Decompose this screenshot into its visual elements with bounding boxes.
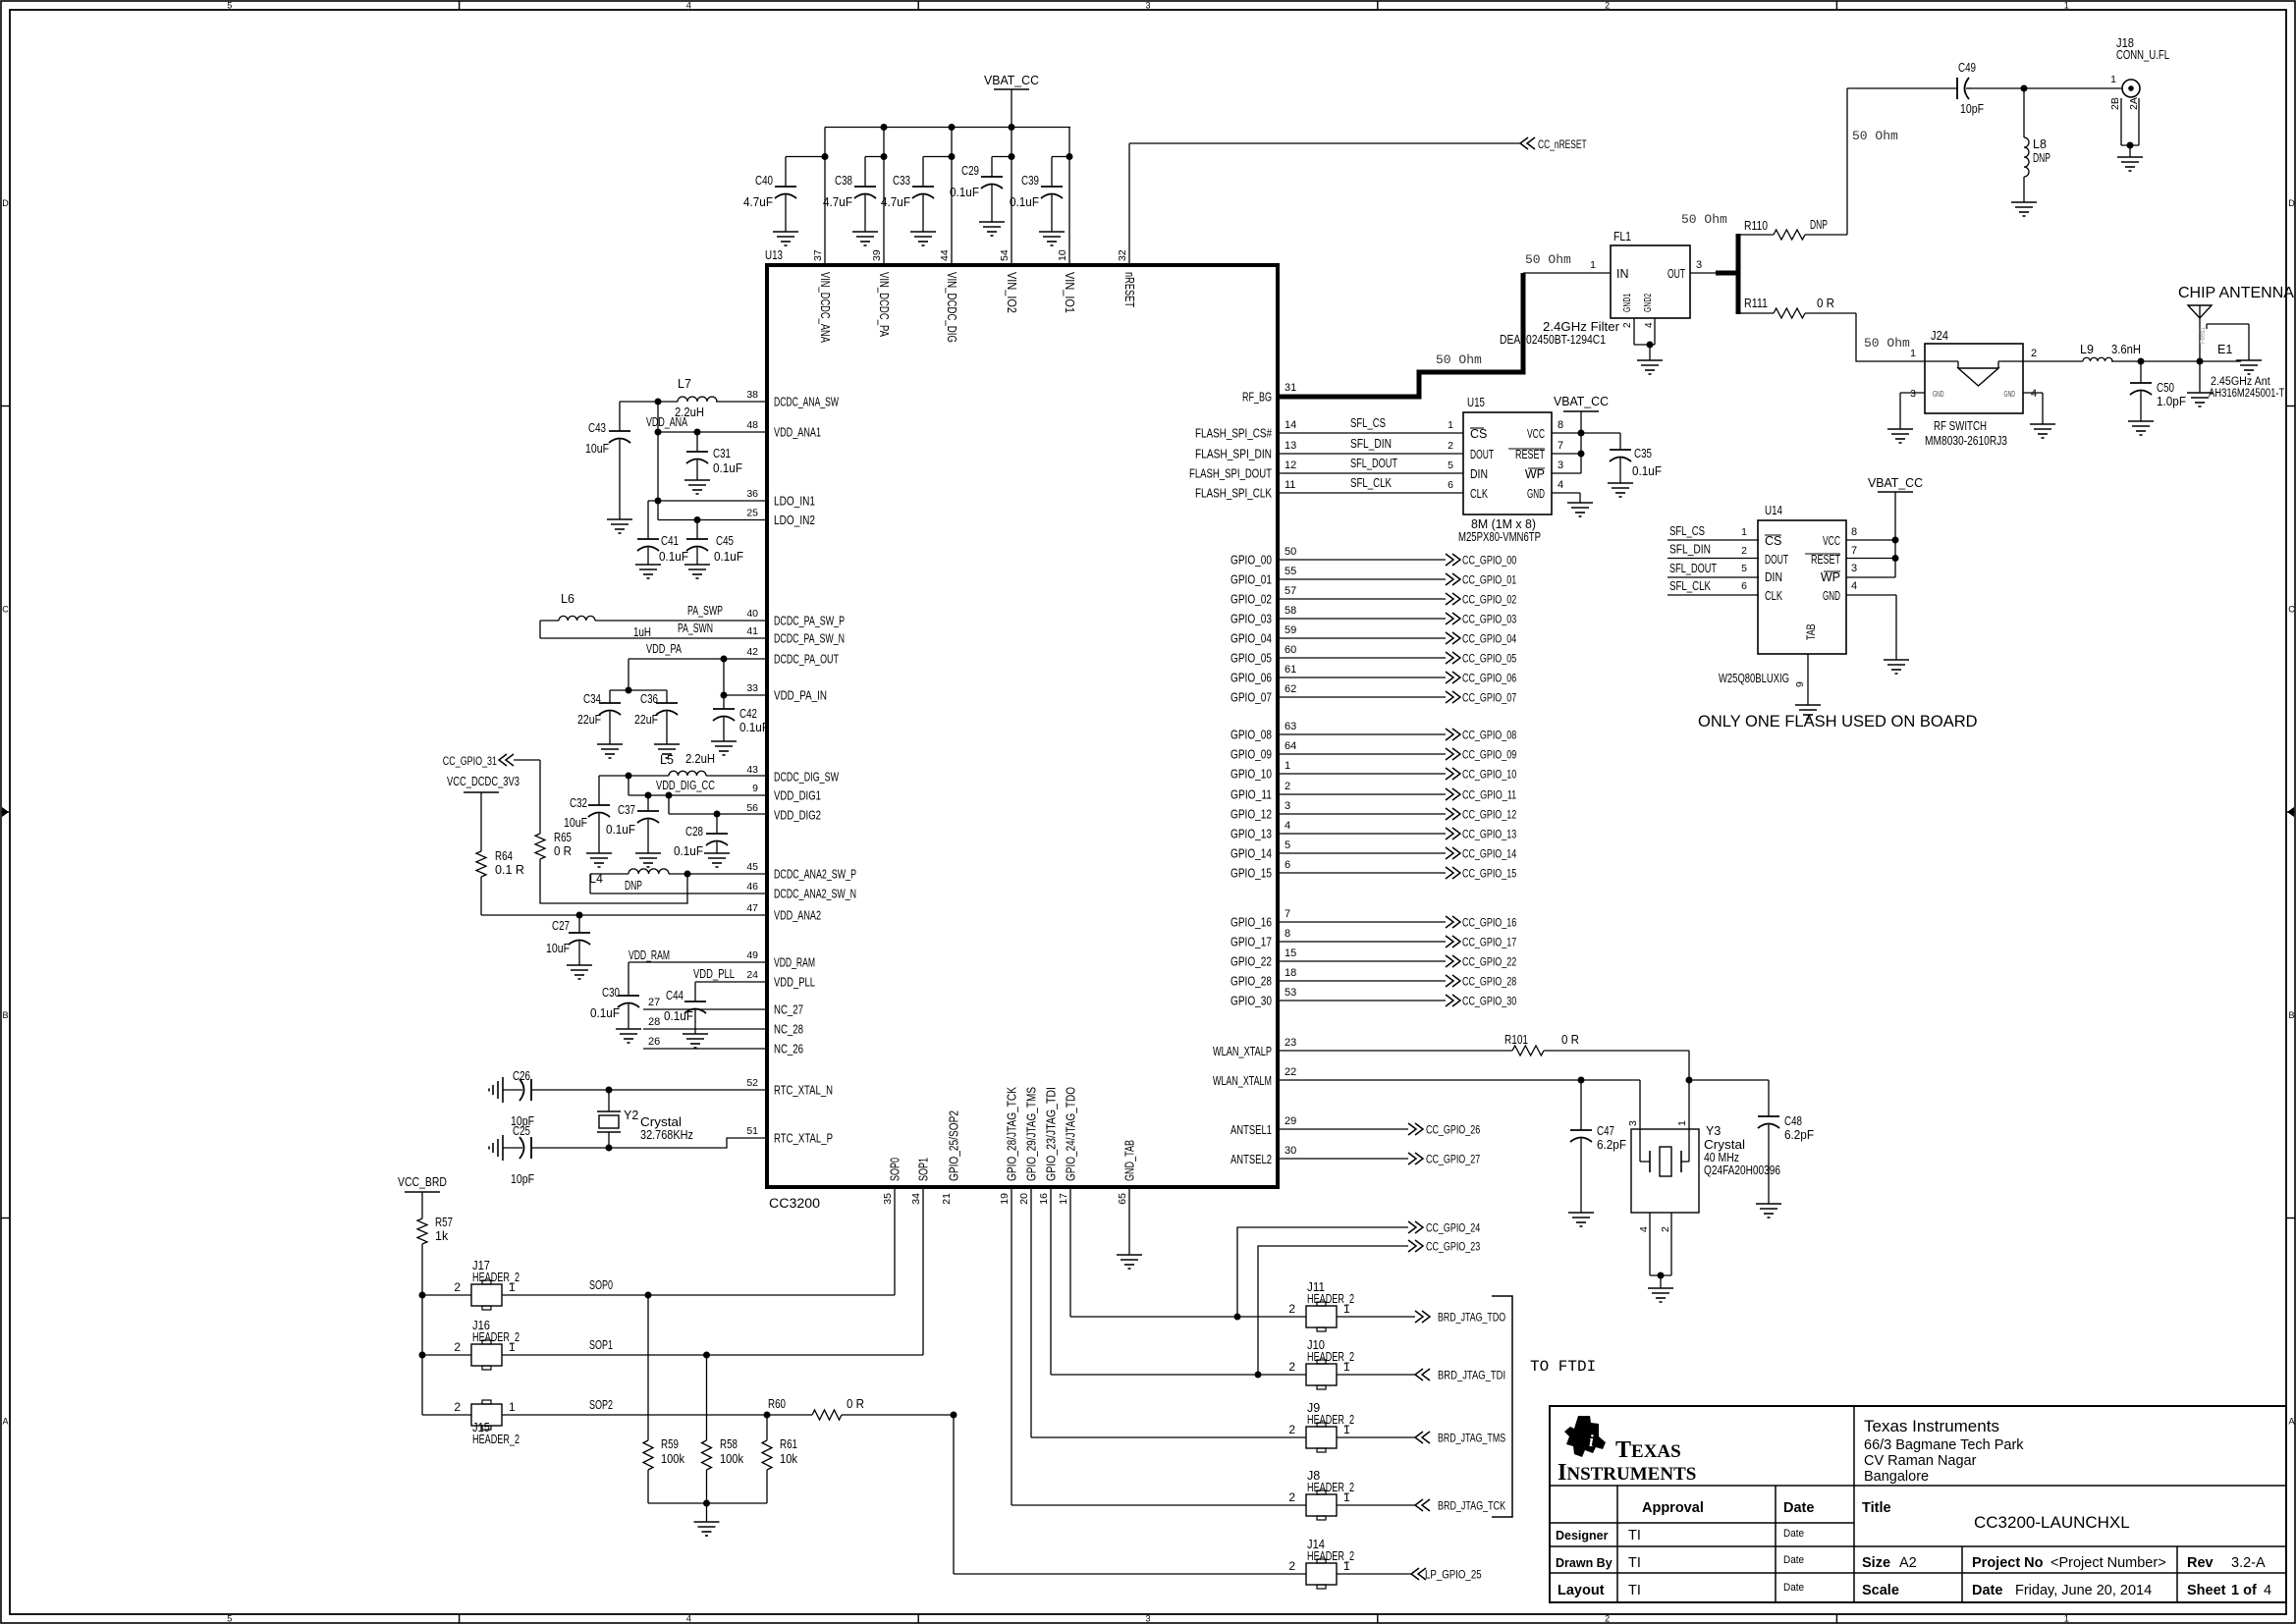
- svg-text:BRD_JTAG_TDI: BRD_JTAG_TDI: [1438, 1369, 1505, 1382]
- svg-text:50 Ohm: 50 Ohm: [1436, 352, 1482, 367]
- U13 left pin 48 VDD_ANA1: [746, 419, 821, 440]
- svg-text:36: 36: [746, 488, 758, 500]
- port LP_GPIO_25: [1411, 1568, 1482, 1582]
- svg-text:SFL_DIN: SFL_DIN: [1669, 543, 1711, 557]
- svg-text:NC_28: NC_28: [774, 1023, 803, 1037]
- U13 right pin 8 GPIO_17: [1230, 928, 1290, 949]
- svg-text:1: 1: [509, 1280, 516, 1294]
- U13 right pin 7 GPIO_16: [1230, 908, 1290, 930]
- svg-text:PA_SWN: PA_SWN: [678, 622, 713, 635]
- svg-text:C27: C27: [552, 919, 570, 933]
- svg-text:10uF: 10uF: [546, 942, 570, 955]
- svg-text:64: 64: [1285, 740, 1296, 752]
- svg-text:8: 8: [1558, 419, 1563, 431]
- ground under U14 GND: [1884, 660, 1909, 674]
- svg-text:DCDC_PA_SW_N: DCDC_PA_SW_N: [774, 632, 845, 646]
- svg-text:5: 5: [1448, 460, 1453, 471]
- svg-text:C26: C26: [513, 1069, 530, 1083]
- U13 left pin 36 LDO_IN1: [746, 488, 815, 509]
- U13 right pin 4 GPIO_13: [1230, 820, 1290, 841]
- svg-text:6.2pF: 6.2pF: [1784, 1128, 1814, 1142]
- svg-text:L8: L8: [2033, 137, 2047, 151]
- port CC_GPIO_26: [1408, 1123, 1480, 1137]
- svg-text:VDD_PLL: VDD_PLL: [693, 967, 735, 981]
- svg-text:VDD_PA_IN: VDD_PA_IN: [774, 689, 827, 703]
- svg-text:DCDC_ANA2_SW_P: DCDC_ANA2_SW_P: [774, 868, 856, 882]
- wire NC stub pin 26: [643, 1036, 767, 1049]
- svg-text:L7: L7: [678, 377, 691, 391]
- svg-text:C28: C28: [685, 825, 703, 839]
- svg-text:C34: C34: [583, 692, 601, 706]
- svg-text:VDD_DIG2: VDD_DIG2: [774, 809, 821, 823]
- svg-text:VBAT_CC: VBAT_CC: [1868, 476, 1923, 490]
- net label VDD_PA: [646, 642, 682, 656]
- inductor L6 1uH: [559, 592, 651, 639]
- wire VDD_PLL row: [695, 981, 767, 983]
- svg-text:1: 1: [2064, 1, 2069, 11]
- wire SFL_DOUT to U15: [1278, 457, 1463, 473]
- svg-text:R59: R59: [661, 1437, 679, 1451]
- ground under C50: [2128, 421, 2154, 435]
- ground under U15 GND: [1567, 503, 1593, 516]
- svg-text:PA_SWP: PA_SWP: [687, 604, 723, 618]
- svg-text:SFL_DOUT: SFL_DOUT: [1350, 457, 1397, 470]
- U13 right pin 12 FLASH_SPI_DOUT: [1189, 460, 1296, 481]
- svg-text:Q24FA20H00396: Q24FA20H00396: [1704, 1164, 1780, 1177]
- svg-text:VDD_PLL: VDD_PLL: [774, 976, 815, 990]
- svg-text:L5: L5: [660, 753, 674, 767]
- svg-text:22uF: 22uF: [634, 713, 658, 727]
- wire ANTSEL2: [1278, 1158, 1408, 1160]
- filter FL1 2.4GHz DEA202450BT-1294C1: [1500, 230, 1702, 347]
- svg-text:VDD_ANA: VDD_ANA: [646, 415, 687, 429]
- svg-text:D: D: [2, 198, 9, 208]
- svg-text:L4: L4: [589, 872, 603, 886]
- svg-text:10pF: 10pF: [511, 1172, 534, 1186]
- svg-text:Date: Date: [1783, 1500, 1814, 1516]
- U13 left pin 33 VDD_PA_IN: [746, 682, 827, 703]
- U13 right pin 53 GPIO_30: [1230, 987, 1296, 1008]
- RF switch J24 MM8030-2610RJ3: [1910, 329, 2037, 448]
- svg-text:GPIO_07: GPIO_07: [1230, 691, 1272, 705]
- capacitor C26 10pF: [503, 1069, 534, 1128]
- svg-text:66/3 Bagmane Tech Park: 66/3 Bagmane Tech Park: [1864, 1437, 2024, 1453]
- svg-text:GND: GND: [1823, 589, 1840, 603]
- capacitor C37 0.1uF: [606, 795, 659, 853]
- wire GPIO_02: [1278, 598, 1446, 600]
- svg-text:2: 2: [1741, 545, 1747, 557]
- wire nRESET vertical: [1128, 143, 1130, 265]
- svg-text:58: 58: [1285, 605, 1296, 617]
- wire U15 GND: [1552, 493, 1580, 503]
- svg-text:CC_GPIO_11: CC_GPIO_11: [1462, 790, 1516, 802]
- svg-text:4.7uF: 4.7uF: [743, 195, 773, 209]
- U13 right pin 60 GPIO_05: [1230, 644, 1296, 666]
- svg-text:1: 1: [1741, 526, 1747, 538]
- svg-text:6.2pF: 6.2pF: [1597, 1138, 1626, 1152]
- resistor R60 0 R: [768, 1397, 957, 1420]
- svg-text:Project No: Project No: [1972, 1555, 2044, 1571]
- svg-text:C33: C33: [893, 174, 910, 188]
- svg-text:56: 56: [746, 802, 758, 814]
- svg-text:3: 3: [1696, 259, 1702, 271]
- resistor R65 0 R: [535, 760, 687, 903]
- wire XTALP down to crystal: [1686, 1051, 1770, 1129]
- wire J14 left from U13 pin column x=971: [954, 1415, 1306, 1574]
- svg-text:0 R: 0 R: [1561, 1033, 1579, 1047]
- svg-text:49: 49: [746, 949, 758, 961]
- svg-text:LDO_IN1: LDO_IN1: [774, 495, 815, 509]
- header J10: [1288, 1338, 1354, 1389]
- svg-text:WLAN_XTALM: WLAN_XTALM: [1213, 1074, 1272, 1088]
- svg-text:1uH: 1uH: [633, 625, 651, 639]
- svg-text:15: 15: [1285, 947, 1296, 959]
- svg-text:CC3200: CC3200: [769, 1196, 820, 1211]
- ground under C32: [586, 853, 612, 867]
- svg-text:DNP: DNP: [625, 879, 642, 893]
- svg-text:10: 10: [1057, 249, 1068, 261]
- svg-text:DEA202450BT-1294C1: DEA202450BT-1294C1: [1500, 333, 1606, 347]
- svg-text:VDD_DIG_CC: VDD_DIG_CC: [656, 779, 715, 792]
- power symbol VBAT_CC (top): [984, 74, 1039, 128]
- wire GPIO_09: [1278, 753, 1446, 755]
- wire GPIO_07: [1278, 696, 1446, 698]
- svg-text:VCC_BRD: VCC_BRD: [398, 1175, 447, 1189]
- svg-text:1: 1: [509, 1340, 516, 1354]
- svg-text:Date: Date: [1783, 1582, 1804, 1594]
- svg-text:GPIO_29/JTAG_TMS: GPIO_29/JTAG_TMS: [1025, 1087, 1039, 1181]
- header J11: [1288, 1280, 1354, 1331]
- U13 right pin 63 GPIO_08: [1230, 721, 1296, 742]
- wire CC_GPIO_23 branch: [1258, 1246, 1408, 1375]
- U13 left pin 25 LDO_IN2: [746, 508, 815, 528]
- svg-text:GPIO_10: GPIO_10: [1230, 768, 1272, 782]
- wire J10 pin1 to port: [1337, 1374, 1415, 1376]
- svg-text:VDD_ANA1: VDD_ANA1: [774, 426, 821, 440]
- svg-text:R58: R58: [720, 1437, 738, 1451]
- U13 bottom pin 35 SOP0: [882, 1158, 902, 1205]
- svg-text:57: 57: [1285, 585, 1296, 597]
- header J17: [454, 1259, 519, 1310]
- svg-text:nRESET: nRESET: [1122, 272, 1136, 307]
- svg-text:55: 55: [1285, 566, 1296, 577]
- svg-text:2.45GHz Ant: 2.45GHz Ant: [2211, 376, 2270, 388]
- capacitor C38 4.7uF: [823, 153, 888, 232]
- wire LDO_IN1 row: [648, 500, 767, 502]
- svg-text:VIN_DCDC_DIG: VIN_DCDC_DIG: [945, 272, 958, 343]
- svg-text:C45: C45: [716, 534, 734, 548]
- wire DCDC_PA_OUT row: [629, 656, 767, 663]
- svg-text:C42: C42: [739, 707, 757, 721]
- svg-text:C40: C40: [755, 174, 773, 188]
- net label VDD_PLL: [693, 967, 735, 981]
- svg-text:CC_GPIO_08: CC_GPIO_08: [1462, 731, 1516, 742]
- wire WLAN_XTALP row: [1278, 1050, 1512, 1052]
- svg-text:0.1uF: 0.1uF: [713, 461, 742, 475]
- svg-text:39: 39: [871, 249, 883, 261]
- svg-text:i: i: [1589, 1432, 1594, 1450]
- svg-text:SFL_CS: SFL_CS: [1350, 416, 1386, 430]
- svg-text:2: 2: [1448, 440, 1453, 452]
- svg-text:5: 5: [227, 1, 232, 11]
- power symbol VCC_DCDC_3V3: [447, 775, 519, 851]
- svg-text:CONN_U.FL: CONN_U.FL: [2116, 48, 2169, 62]
- port CC_GPIO_31: [443, 754, 540, 768]
- svg-text:CC_GPIO_30: CC_GPIO_30: [1462, 997, 1516, 1008]
- svg-text:GPIO_30: GPIO_30: [1230, 995, 1272, 1008]
- svg-text:LDO_IN2: LDO_IN2: [774, 514, 815, 527]
- port CC_GPIO_22: [1446, 955, 1516, 969]
- wire CC_GPIO_24 branch: [1237, 1227, 1408, 1317]
- bracket TO FTDI: [1492, 1296, 1596, 1517]
- svg-text:C29: C29: [961, 164, 979, 178]
- ground GND_TAB: [1117, 1187, 1142, 1269]
- U13 right pin 14 FLASH_SPI_CS#: [1195, 419, 1296, 441]
- wire SOP2: [502, 1398, 812, 1419]
- wire PA_SWP row: [595, 604, 767, 621]
- svg-text:37: 37: [812, 249, 824, 261]
- svg-text:M25PX80-VMN6TP: M25PX80-VMN6TP: [1458, 530, 1541, 544]
- ground under C31: [684, 480, 710, 494]
- port CC_GPIO_09: [1446, 748, 1516, 762]
- svg-text:C38: C38: [835, 174, 852, 188]
- port BRD_JTAG_TDI: [1415, 1369, 1505, 1382]
- wire VDD_DIG2 row: [669, 795, 767, 818]
- power symbol VBAT_CC (U14): [1868, 476, 1923, 577]
- svg-text:DNP: DNP: [2033, 151, 2050, 165]
- svg-text:8: 8: [1851, 526, 1857, 538]
- U13 right pin 55 GPIO_01: [1230, 566, 1296, 587]
- svg-text:0 R: 0 R: [1817, 297, 1834, 310]
- svg-text:Bangalore: Bangalore: [1864, 1469, 1929, 1485]
- svg-text:1: 1: [1590, 259, 1596, 271]
- ground under R58: [694, 1522, 720, 1536]
- svg-text:Y3: Y3: [1706, 1124, 1721, 1138]
- svg-text:2: 2: [454, 1400, 461, 1414]
- svg-text:35: 35: [882, 1193, 894, 1205]
- inductor L8 DNP: [2024, 88, 2050, 202]
- U13 top pin 54 VIN_IO2: [999, 249, 1018, 313]
- svg-text:CLK: CLK: [1765, 589, 1782, 603]
- U13 right pin 61 GPIO_06: [1230, 664, 1296, 685]
- svg-text:DCDC_ANA_SW: DCDC_ANA_SW: [774, 396, 839, 409]
- svg-text:2.2uH: 2.2uH: [685, 752, 715, 766]
- capacitor C42 0.1uF: [713, 659, 769, 741]
- svg-text:1: 1: [509, 1400, 516, 1414]
- svg-text:Approval: Approval: [1642, 1500, 1704, 1516]
- svg-text:DCDC_ANA2_SW_N: DCDC_ANA2_SW_N: [774, 888, 856, 901]
- svg-text:CC_GPIO_00: CC_GPIO_00: [1462, 556, 1516, 568]
- svg-text:28: 28: [648, 1016, 660, 1028]
- svg-text:60: 60: [1285, 644, 1296, 656]
- svg-text:1: 1: [1343, 1490, 1350, 1504]
- svg-text:FLASH_SPI_CLK: FLASH_SPI_CLK: [1195, 487, 1273, 501]
- svg-text:TEXAS: TEXAS: [1615, 1437, 1681, 1463]
- ground under C48: [1756, 1204, 1781, 1218]
- svg-text:GND1: GND1: [1622, 294, 1633, 312]
- svg-text:TI: TI: [1628, 1555, 1641, 1571]
- U13 right pin 59 GPIO_04: [1230, 624, 1296, 646]
- wire FL1 out to stub: [1690, 272, 1738, 274]
- svg-text:SFL_CLK: SFL_CLK: [1350, 476, 1393, 490]
- svg-text:Size: Size: [1862, 1555, 1890, 1571]
- ground under C39: [1039, 232, 1065, 245]
- header J16: [454, 1319, 519, 1370]
- svg-text:46: 46: [746, 881, 758, 893]
- note ONLY ONE FLASH USED ON BOARD: [1698, 713, 1978, 731]
- svg-text:SOP1: SOP1: [917, 1158, 931, 1181]
- ground under C38: [852, 232, 878, 245]
- header J14: [1288, 1538, 1354, 1589]
- svg-text:3: 3: [1851, 563, 1857, 574]
- svg-text:B: B: [2, 1010, 8, 1020]
- svg-text:0 R: 0 R: [847, 1397, 864, 1411]
- svg-text:VDD_PA: VDD_PA: [646, 642, 682, 656]
- svg-text:TI: TI: [1628, 1583, 1641, 1598]
- svg-text:22: 22: [1285, 1066, 1296, 1078]
- U13 top pin 44 VIN_DCDC_DIG: [939, 249, 958, 343]
- svg-text:VBAT_CC: VBAT_CC: [1554, 395, 1609, 408]
- wire GPIO_15: [1278, 872, 1446, 874]
- svg-text:22uF: 22uF: [577, 713, 601, 727]
- wire DCDC_ANA2_SW_P row: [590, 871, 767, 878]
- svg-text:0.1uF: 0.1uF: [606, 823, 635, 837]
- svg-text:27: 27: [648, 997, 660, 1008]
- ground under C45: [684, 565, 710, 578]
- port CC_GPIO_05: [1446, 652, 1516, 666]
- wire GPIO_17: [1278, 941, 1446, 943]
- header J8: [1288, 1469, 1354, 1520]
- svg-text:GPIO_22: GPIO_22: [1230, 955, 1272, 969]
- wire VDD_ANA vertical rail: [655, 402, 662, 520]
- wire SFL_CLK to U14: [1667, 579, 1759, 595]
- ground under L8: [2011, 202, 2037, 216]
- port BRD_JTAG_TCK: [1415, 1499, 1505, 1513]
- resistor R111 0 R: [1740, 297, 1856, 318]
- port CC_GPIO_30: [1446, 995, 1516, 1008]
- svg-text:IN: IN: [1616, 267, 1629, 281]
- svg-text:GPIO_15: GPIO_15: [1230, 867, 1272, 881]
- crystal Y2 32.768KHz: [597, 1090, 693, 1148]
- svg-text:ONLY ONE FLASH USED ON BOARD: ONLY ONE FLASH USED ON BOARD: [1698, 713, 1978, 731]
- svg-text:3: 3: [1145, 1, 1150, 11]
- svg-text:4: 4: [1638, 1226, 1650, 1232]
- svg-text:CC_GPIO_26: CC_GPIO_26: [1426, 1125, 1480, 1137]
- wire VIN pin vertical x=969: [951, 128, 953, 266]
- U13 left pin 27 NC_27: [774, 1003, 803, 1017]
- svg-text:3: 3: [1627, 1120, 1639, 1126]
- svg-text:5: 5: [1741, 563, 1747, 574]
- svg-text:Y2: Y2: [624, 1109, 638, 1122]
- svg-text:DCDC_PA_SW_P: DCDC_PA_SW_P: [774, 615, 845, 628]
- svg-text:2: 2: [454, 1280, 461, 1294]
- svg-text:GND: GND: [1933, 390, 1944, 399]
- wire U14 TAB pin 9: [1794, 654, 1808, 705]
- svg-text:GPIO_11: GPIO_11: [1230, 788, 1272, 802]
- U13 right pin 15 GPIO_22: [1230, 947, 1296, 969]
- capacitor C44 0.1uF: [664, 982, 706, 1034]
- svg-text:41: 41: [746, 625, 758, 637]
- svg-text:Crystal: Crystal: [1704, 1138, 1745, 1152]
- port CC_GPIO_27: [1408, 1153, 1480, 1166]
- wire VDD_ANA2 row: [481, 912, 767, 919]
- svg-text:CC_GPIO_02: CC_GPIO_02: [1462, 595, 1516, 607]
- svg-text:CC_GPIO_27: CC_GPIO_27: [1426, 1155, 1480, 1166]
- svg-text:Scale: Scale: [1862, 1583, 1899, 1598]
- U13 bottom pin 17 GPIO_24/JTAG_TDO: [1058, 1087, 1078, 1205]
- svg-text:CC_GPIO_05: CC_GPIO_05: [1462, 654, 1516, 666]
- svg-text:31: 31: [1285, 382, 1296, 394]
- ground under C30: [616, 1029, 641, 1043]
- title block company address: [1864, 1417, 2024, 1485]
- svg-text:2: 2: [1660, 1226, 1671, 1232]
- ground under C47: [1568, 1213, 1594, 1226]
- U13 left pin 46 DCDC_ANA2_SW_N: [746, 881, 856, 901]
- wire SFL_DOUT to U14: [1667, 562, 1759, 577]
- port CC_GPIO_01: [1446, 573, 1516, 587]
- svg-text:1: 1: [1343, 1559, 1350, 1573]
- svg-text:GPIO_28: GPIO_28: [1230, 975, 1272, 989]
- ground J24 pin4: [2030, 424, 2055, 438]
- resistor R64 0.1 R: [476, 849, 524, 915]
- svg-text:CHIP ANTENNA: CHIP ANTENNA: [2178, 285, 2294, 301]
- ground under Y3: [1648, 1288, 1673, 1302]
- U13 right pin 2 GPIO_11: [1230, 781, 1290, 802]
- svg-text:30: 30: [1285, 1145, 1296, 1157]
- wire RF_BG 50 Ohm thick: [1278, 252, 1611, 397]
- wire GPIO_22: [1278, 960, 1446, 962]
- svg-text:17: 17: [1058, 1193, 1069, 1205]
- svg-text:GPIO_06: GPIO_06: [1230, 672, 1272, 685]
- svg-text:CC_GPIO_03: CC_GPIO_03: [1462, 615, 1516, 626]
- ground under C35: [1608, 483, 1633, 497]
- inductor L4 DNP: [589, 869, 669, 893]
- svg-text:CC_GPIO_24: CC_GPIO_24: [1426, 1223, 1481, 1235]
- svg-text:2: 2: [1605, 1, 1610, 11]
- wire RTC_XTAL_P row: [531, 1138, 767, 1152]
- svg-text:CC_GPIO_22: CC_GPIO_22: [1462, 957, 1516, 969]
- U13 bottom pin 20 GPIO_29/JTAG_TMS: [1018, 1087, 1039, 1205]
- svg-text:<Project Number>: <Project Number>: [2050, 1555, 2166, 1571]
- capacitor C30 0.1uF: [590, 962, 639, 1029]
- svg-text:E1: E1: [2217, 343, 2232, 356]
- ground under antenna: [2187, 361, 2213, 406]
- svg-text:Date: Date: [1783, 1554, 1804, 1566]
- port CC_GPIO_15: [1446, 867, 1516, 881]
- wire J24 pin4 ground: [2023, 393, 2043, 424]
- ground under C27: [567, 965, 592, 979]
- svg-text:1k: 1k: [435, 1229, 449, 1243]
- U13 top pin 10 VIN_IO1: [1057, 249, 1076, 313]
- U13 top pin 32 nRESET: [1117, 249, 1136, 307]
- U13 left pin 56 VDD_DIG2: [746, 802, 821, 823]
- svg-text:DIN: DIN: [1765, 570, 1782, 584]
- svg-text:GPIO_04: GPIO_04: [1230, 632, 1272, 646]
- svg-text:FLASH_SPI_DIN: FLASH_SPI_DIN: [1195, 448, 1272, 461]
- wire SFL_DIN to U14: [1667, 543, 1759, 559]
- svg-text:32.768KHz: 32.768KHz: [640, 1128, 693, 1142]
- svg-text:2: 2: [1605, 1614, 1610, 1624]
- wire GPIO_12: [1278, 813, 1446, 815]
- svg-text:29: 29: [1285, 1115, 1296, 1127]
- svg-text:33: 33: [746, 682, 758, 694]
- svg-text:GPIO_16: GPIO_16: [1230, 916, 1272, 930]
- U13 right pin 57 GPIO_02: [1230, 585, 1296, 607]
- svg-text:2.4GHz Filter: 2.4GHz Filter: [1543, 320, 1619, 334]
- wire J15 pin2: [422, 1414, 471, 1416]
- svg-text:VBAT_CC: VBAT_CC: [984, 74, 1039, 87]
- wire J8 pin1 to port: [1337, 1504, 1415, 1506]
